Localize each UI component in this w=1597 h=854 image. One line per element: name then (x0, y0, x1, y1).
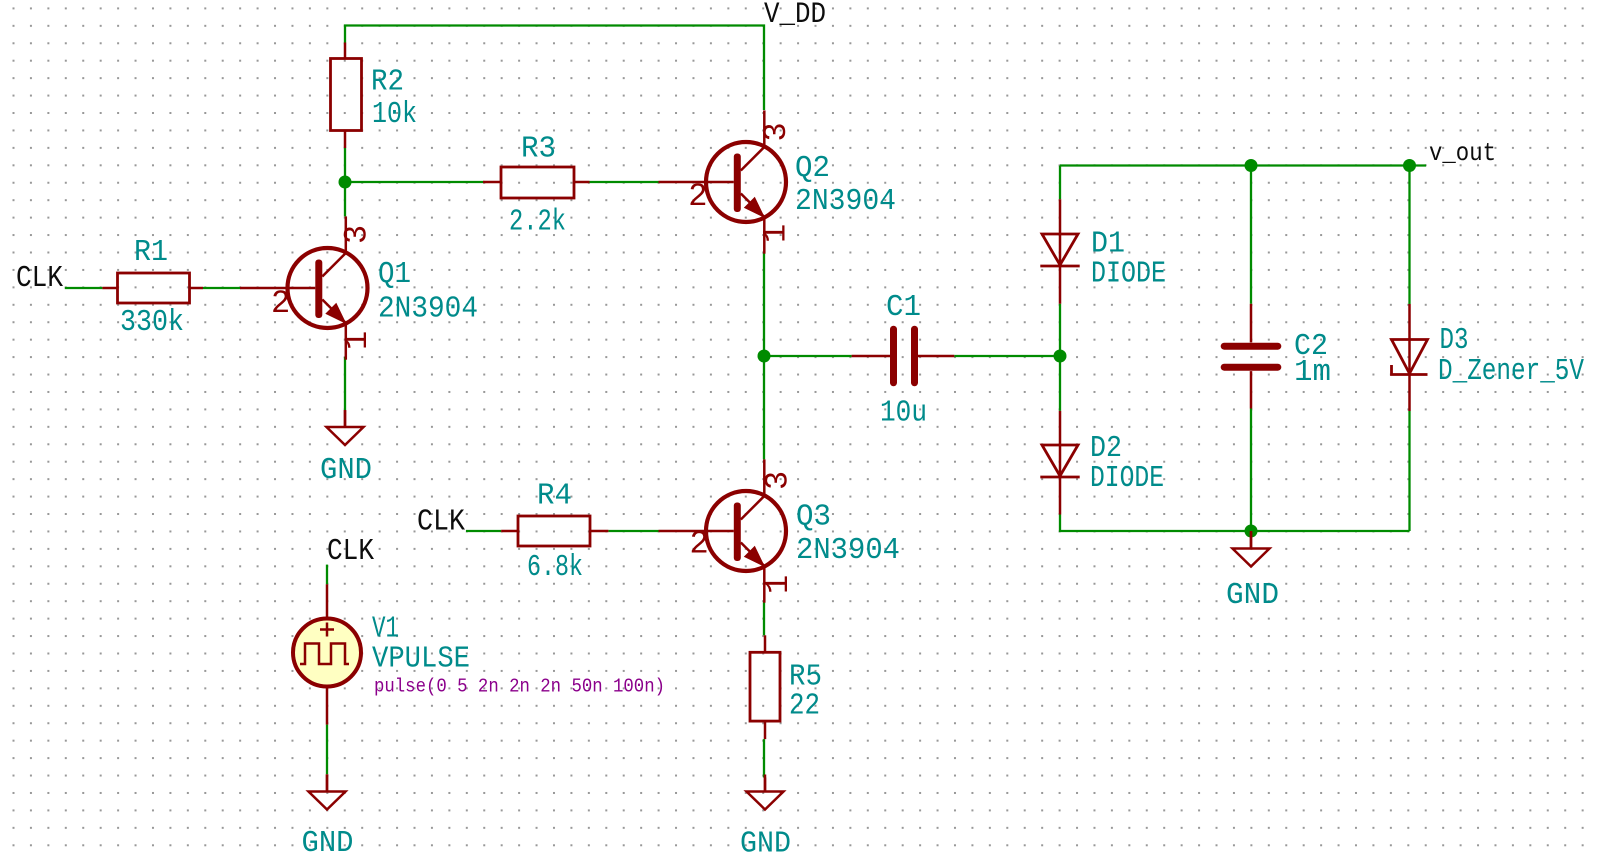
svg-text:GND: GND (320, 453, 372, 488)
svg-text:R2: R2 (371, 64, 404, 99)
svg-text:2: 2 (690, 526, 709, 563)
svg-text:CLK: CLK (16, 261, 63, 296)
svg-text:D3: D3 (1440, 323, 1469, 358)
svg-text:2: 2 (271, 285, 290, 322)
svg-text:Q3: Q3 (796, 500, 831, 535)
svg-text:2.2k: 2.2k (509, 205, 566, 240)
svg-text:1m: 1m (1294, 355, 1331, 390)
svg-text:2N3904: 2N3904 (796, 533, 900, 568)
svg-text:DIODE: DIODE (1091, 257, 1166, 292)
svg-text:GND: GND (740, 827, 791, 854)
svg-text:v_out: v_out (1429, 138, 1496, 168)
svg-text:10u: 10u (880, 395, 927, 430)
svg-text:6.8k: 6.8k (527, 550, 583, 585)
svg-text:3: 3 (758, 122, 795, 141)
svg-text:V_DD: V_DD (764, 0, 826, 32)
svg-text:2: 2 (688, 178, 707, 215)
svg-text:CLK: CLK (327, 534, 374, 569)
svg-text:CLK: CLK (417, 505, 465, 540)
svg-text:3: 3 (339, 225, 376, 244)
svg-text:D_Zener_5V: D_Zener_5V (1438, 354, 1584, 389)
svg-text:1: 1 (339, 331, 376, 350)
svg-text:22: 22 (789, 689, 820, 724)
svg-text:3: 3 (760, 471, 797, 490)
svg-text:2N3904: 2N3904 (378, 292, 478, 327)
svg-text:GND: GND (302, 826, 354, 854)
svg-text:Q1: Q1 (378, 257, 411, 292)
svg-text:R4: R4 (537, 479, 572, 514)
svg-text:R1: R1 (134, 235, 168, 270)
svg-text:1: 1 (757, 224, 794, 243)
svg-text:R3: R3 (521, 132, 556, 167)
svg-text:330k: 330k (120, 305, 184, 340)
svg-text:1: 1 (760, 575, 797, 594)
svg-text:2N3904: 2N3904 (795, 184, 896, 219)
svg-text:VPULSE: VPULSE (372, 642, 470, 677)
svg-text:GND: GND (1226, 578, 1279, 613)
svg-text:C1: C1 (886, 290, 921, 325)
svg-text:Q2: Q2 (795, 151, 830, 186)
svg-text:10k: 10k (372, 97, 417, 132)
svg-text:DIODE: DIODE (1090, 461, 1164, 496)
svg-text:pulse(0 5 2n 2n 2n 50n 100n): pulse(0 5 2n 2n 2n 50n 100n) (374, 676, 665, 698)
